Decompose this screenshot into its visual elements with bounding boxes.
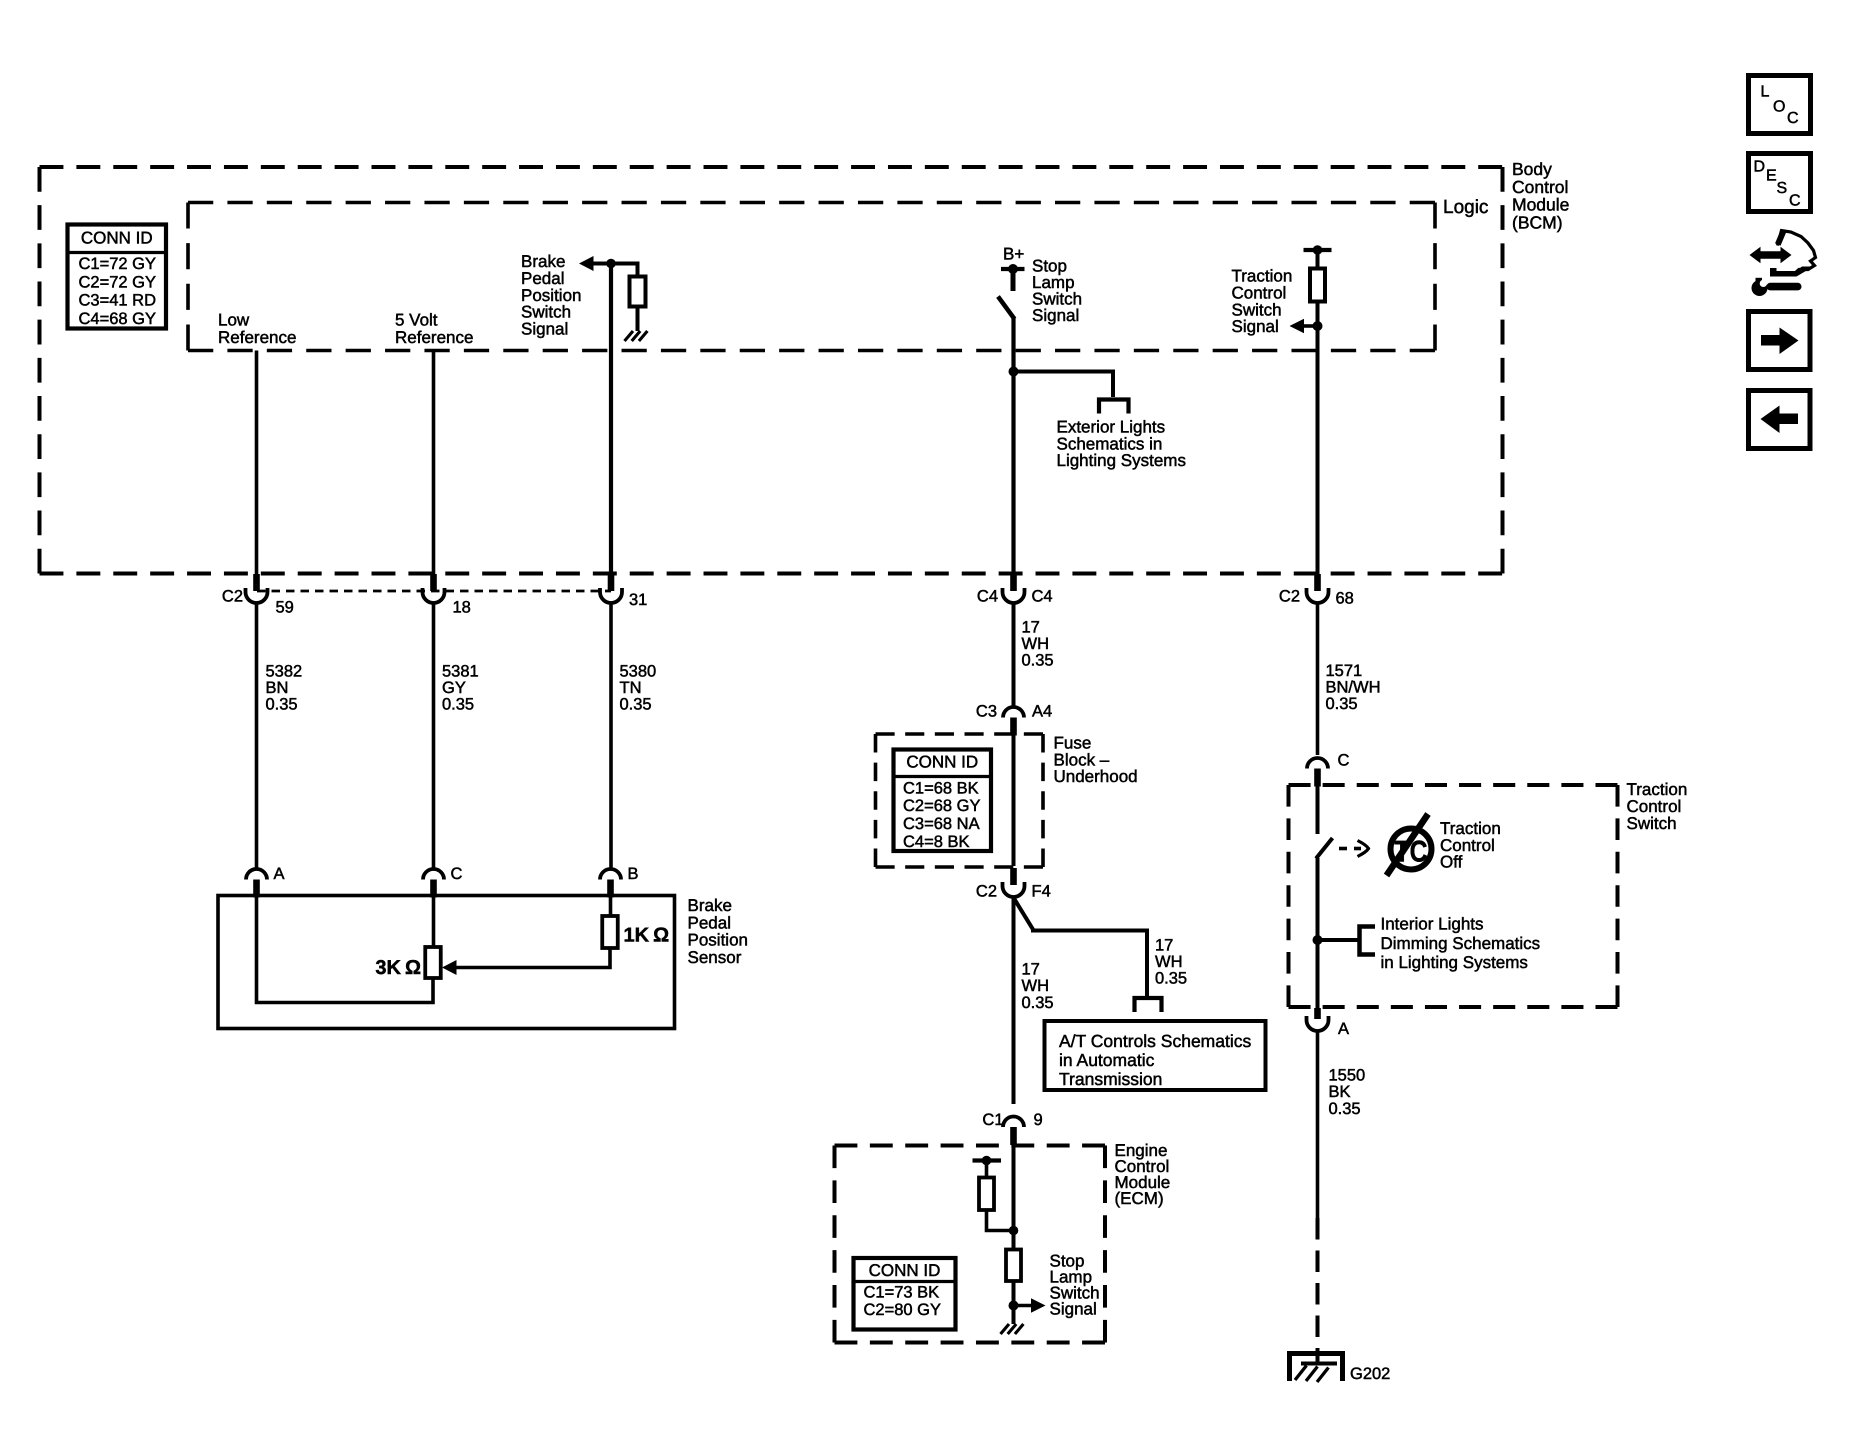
wire: branch to A/T controls off-page connector	[1014, 899, 1147, 998]
resistor: ECM lower divider	[1006, 1250, 1021, 1282]
arrow: mechanical link pointer (points right)	[1358, 841, 1369, 857]
svg-text:G202: G202	[1350, 1365, 1390, 1383]
svg-text:FuseBlock –Underhood: FuseBlock –Underhood	[1054, 734, 1138, 786]
wire: 5 Volt Reference (BCM internal, x=433)	[432, 351, 436, 589]
module box: Engine Control Module (ECM), dashed outline	[835, 1144, 1106, 1148]
wire: switch lower contact down to pin A	[1316, 858, 1320, 1008]
connector: ECM C1 pin 9	[1003, 1117, 1024, 1146]
wire: 1K resistor to potentiometer wiper	[447, 948, 610, 968]
svg-text:5380TN0.35: 5380TN0.35	[620, 662, 657, 713]
svg-text:C2: C2	[1279, 587, 1300, 605]
connector ID table: BCM CONN ID (C1=72 GY, C2=72 GY, C3=41 RD, C4=68 GY)	[68, 225, 167, 329]
svg-text:C1=68 BKC2=68 GYC3=68 NAC4=8 B: C1=68 BKC2=68 GYC3=68 NAC4=8 BK	[903, 779, 981, 851]
svg-text:59: 59	[276, 598, 294, 616]
svg-text:StopLampSwitchSignal: StopLampSwitchSignal	[1032, 257, 1082, 326]
svg-text:B+: B+	[1003, 245, 1024, 264]
icon: next page button (right arrow)	[1749, 312, 1811, 370]
module box: Logic (inside BCM), dashed outline	[188, 201, 1435, 205]
wire: pull-up resistor to main node	[987, 1210, 1014, 1231]
connector ID table: ECM CONN ID (C1=73 BK, C2=80 GY)	[854, 1258, 956, 1330]
junction: node to interior lights branch	[1313, 935, 1323, 945]
connector: sensor pin A	[246, 869, 267, 897]
wire: 1571 BN/WH 0.35 (BCM 68 to traction control switch C)	[1316, 603, 1320, 755]
svg-text:68: 68	[1336, 589, 1354, 607]
wire: 1550 BK 0.35 (pin A to ground G202), upper solid part	[1316, 1030, 1320, 1218]
wire: resistor to ground	[636, 307, 640, 332]
svg-text:TractionControlOff: TractionControlOff	[1440, 819, 1501, 871]
wire: branch to exterior lights off-page connector	[1014, 372, 1114, 398]
svg-text:18: 18	[453, 598, 471, 616]
svg-text:TractionControlSwitch: TractionControlSwitch	[1627, 780, 1688, 833]
arrow: brake pedal position switch signal (points left)	[579, 256, 594, 271]
svg-text:CONN ID: CONN ID	[81, 229, 153, 248]
svg-text:C: C	[1789, 193, 1801, 210]
ground: G202 chassis ground	[1290, 1354, 1343, 1383]
dotted connector tie line across pins 59-18-31	[257, 590, 611, 593]
arrow: potentiometer wiper into 3K resistor (points left)	[442, 960, 457, 975]
svg-text:Interior LightsDimming Schemat: Interior LightsDimming Schematicsin Ligh…	[1381, 915, 1541, 972]
ground: ECM internal chassis ground	[1001, 1324, 1024, 1334]
svg-text:5 VoltReference: 5 VoltReference	[395, 311, 473, 348]
junction: node to exterior lights branch	[1009, 367, 1019, 377]
svg-text:C2: C2	[222, 587, 243, 605]
svg-text:C: C	[451, 865, 463, 883]
wire: 5380 TN 0.35 (signal to sensor pin B)	[609, 603, 613, 868]
connector: traction control switch pin A	[1307, 1008, 1329, 1031]
connector ID table: fuse block CONN ID (C1=68 BK, C2=68 GY, C3=68 NA, C4=8 BK)	[894, 750, 992, 852]
wire: horizontal from arrow to internal resistor, BCM logic	[592, 262, 638, 266]
svg-text:L: L	[1761, 84, 1770, 101]
wire: sensor pin A to 3K resistor bottom	[257, 897, 434, 1003]
wire: Brake Pedal Position Switch Signal (BCM internal, x=611)	[609, 264, 613, 589]
svg-text:CONN ID: CONN ID	[869, 1261, 941, 1280]
svg-text:C: C	[1787, 110, 1799, 127]
indicator icon: Traction Control Off (TC circle with slash)	[1387, 814, 1432, 876]
wire: ECM C1-9 into internal divider	[1012, 1143, 1016, 1250]
svg-text:O: O	[1773, 99, 1785, 116]
svg-text:S: S	[1777, 180, 1788, 197]
svg-text:C4: C4	[1032, 587, 1053, 605]
wire: stop lamp switch signal down to BCM C4	[1011, 317, 1015, 588]
connector: fuse block C3 pin A4	[1003, 707, 1024, 736]
svg-text:5382BN0.35: 5382BN0.35	[266, 662, 303, 713]
wire: lower resistor to ground node	[1012, 1281, 1016, 1324]
linkage: dashed mechanical link to indicator	[1339, 847, 1347, 851]
junction: ECM signal sense node	[1009, 1301, 1019, 1311]
resistor: 3K potentiometer element	[425, 947, 441, 978]
off-page connector: to exterior lights schematics	[1099, 400, 1129, 414]
connector: BCM C2 pin 59	[246, 574, 268, 603]
svg-text:BrakePedalPositionSwitchSignal: BrakePedalPositionSwitchSignal	[521, 252, 581, 338]
svg-text:Exterior LightsSchematics inLi: Exterior LightsSchematics inLighting Sys…	[1057, 418, 1186, 470]
wire: switch upper contact	[1316, 787, 1320, 835]
svg-text:LowReference: LowReference	[218, 311, 296, 348]
junction: traction control sense node	[1313, 321, 1323, 331]
svg-text:F4: F4	[1032, 882, 1051, 900]
connector: BCM C4 pin C4	[1003, 574, 1025, 603]
wire: Low Reference (BCM internal, x=256)	[255, 351, 259, 589]
switch: stop lamp switch blade (open)	[998, 297, 1015, 320]
connector: fuse block C2 pin F4	[1003, 868, 1025, 897]
svg-text:BodyControlModule(BCM): BodyControlModule(BCM)	[1512, 159, 1569, 232]
switch: traction control switch blade (open)	[1316, 838, 1333, 859]
wire: resistor to sense node	[1316, 302, 1320, 327]
connector: traction control switch pin C	[1307, 758, 1328, 787]
wire: branch to interior lights off-page connector	[1318, 938, 1359, 942]
component box: Fuse Block - Underhood (dashed)	[876, 732, 1044, 736]
component box: Traction Control Switch (dashed)	[1289, 783, 1618, 787]
svg-text:1571BN/WH0.35: 1571BN/WH0.35	[1326, 662, 1381, 713]
power symbol: ECM internal pull-up supply bar	[973, 1158, 1002, 1162]
connector: sensor pin C	[423, 869, 444, 897]
arrow: traction control switch signal sense (points left)	[1304, 324, 1318, 328]
component box: Brake Pedal Position Sensor	[218, 896, 675, 1029]
svg-text:A: A	[274, 865, 285, 883]
wire: through fuse block (fuse F4 path)	[1012, 735, 1016, 866]
arrow: stop lamp switch signal sense (points right)	[1014, 1304, 1033, 1308]
connector: sensor pin B	[600, 869, 621, 897]
wire: 17 WH 0.35 (BCM C4 to fuse block A4)	[1012, 603, 1016, 706]
wire: 5381 GY 0.35 (5 Volt Reference to sensor pin C)	[432, 603, 436, 868]
resistor: ECM pull-up	[979, 1178, 994, 1211]
svg-text:1K Ω: 1K Ω	[624, 925, 670, 947]
svg-text:3K Ω: 3K Ω	[375, 957, 421, 979]
wire: resistor drop leg	[636, 262, 640, 278]
svg-text:StopLampSwitchSignal: StopLampSwitchSignal	[1050, 1252, 1100, 1319]
svg-text:1550BK0.35: 1550BK0.35	[1329, 1066, 1366, 1118]
svg-text:D: D	[1754, 158, 1766, 175]
connector: BCM C2 pin 68	[1307, 574, 1329, 603]
wire: 17 WH 0.35 (fuse block F4 to ECM C1 pin 9)	[1012, 897, 1016, 1104]
svg-text:C4: C4	[977, 587, 998, 605]
module box: Body Control Module (BCM), dashed outline	[40, 165, 1503, 169]
svg-text:5381GY0.35: 5381GY0.35	[442, 662, 479, 713]
wire: 1550 BK 0.35 dashed continuation to G202	[1316, 1218, 1320, 1364]
svg-text:C: C	[1338, 751, 1350, 769]
wire: supply bar to pull-up resistor	[985, 1161, 989, 1179]
svg-text:C1=72 GYC2=72 GYC3=41 RDC4=68: C1=72 GYC2=72 GYC3=41 RDC4=68 GY	[79, 255, 157, 328]
resistor: BCM internal (brake pedal position pull-up)	[630, 277, 646, 307]
wire: sensor pin B to 1K resistor	[609, 897, 613, 917]
svg-text:17WH0.35: 17WH0.35	[1022, 618, 1054, 669]
connector: BCM C2 pin 31	[600, 574, 622, 603]
svg-text:EngineControlModule(ECM): EngineControlModule(ECM)	[1115, 1141, 1171, 1208]
svg-text:Logic: Logic	[1443, 197, 1488, 218]
svg-text:B: B	[628, 865, 639, 883]
svg-text:A/T Controls Schematicsin Auto: A/T Controls Schematicsin AutomaticTrans…	[1059, 1031, 1251, 1089]
svg-text:C1: C1	[982, 1111, 1003, 1129]
resistor: 1K (sensor internal)	[602, 916, 618, 948]
connector: BCM C2 pin 18	[423, 574, 445, 603]
resistor: BCM internal pull-up (traction control switch)	[1310, 269, 1325, 302]
wire: traction control switch signal to BCM C2 pin 68	[1316, 326, 1320, 588]
wire: 5382 BN 0.35 (Low Reference to sensor pin A)	[255, 603, 259, 868]
icon: previous page button (left arrow)	[1749, 391, 1811, 449]
icon: DESC button	[1749, 154, 1811, 212]
svg-text:TractionControlSwitchSignal: TractionControlSwitchSignal	[1232, 267, 1293, 336]
off-page connector: to interior lights dimming schematics	[1360, 927, 1376, 955]
icon: schematic navigation (double arrow and wrench)	[1750, 231, 1816, 297]
ground: BCM internal chassis ground	[625, 331, 648, 341]
svg-text:17WH0.35: 17WH0.35	[1155, 936, 1187, 987]
icon: LOC button	[1749, 76, 1811, 134]
svg-text:C2: C2	[976, 882, 997, 900]
junction: wire 31 top node	[606, 259, 616, 269]
junction: ECM pull-up node	[1009, 1226, 1019, 1236]
svg-text:C3: C3	[976, 702, 997, 720]
svg-text:E: E	[1766, 168, 1777, 185]
power symbol: BCM internal supply bar (traction control)	[1304, 248, 1332, 252]
svg-text:A4: A4	[1032, 702, 1052, 720]
svg-text:CONN ID: CONN ID	[906, 753, 978, 772]
svg-text:BrakePedalPositionSensor: BrakePedalPositionSensor	[688, 896, 748, 967]
svg-text:17WH0.35: 17WH0.35	[1022, 961, 1054, 1012]
svg-text:C1=73 BKC2=80 GY: C1=73 BKC2=80 GY	[864, 1284, 942, 1320]
svg-text:31: 31	[629, 591, 647, 609]
svg-text:9: 9	[1034, 1111, 1043, 1129]
off-page connector: to A/T controls schematics	[1135, 998, 1162, 1012]
wire: sensor pin C to 3K resistor top	[432, 897, 436, 948]
svg-text:A: A	[1338, 1020, 1349, 1038]
reference box: A/T Controls Schematics in Automatic Transmission	[1045, 1021, 1266, 1090]
